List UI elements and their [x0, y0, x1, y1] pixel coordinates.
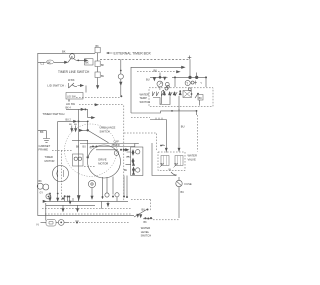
svg-text:BK: BK	[125, 150, 129, 152]
label: BK oval tag	[46, 60, 53, 64]
svg-text:MOTOR: MOTOR	[98, 162, 108, 166]
wire: drop arrow left	[62, 205, 64, 211]
connector circles pair bottom left	[37, 180, 49, 195]
svg-text:LID SWITCH :: LID SWITCH :	[47, 84, 66, 88]
svg-text:W-BK: W-BK	[68, 79, 75, 82]
node: dashed link to valve area	[124, 133, 157, 152]
wire: arrow at bus start	[43, 200, 46, 202]
label: TIMER LINE SWITCH	[58, 70, 90, 74]
wire: drop arrow center	[107, 201, 109, 206]
water temp switch contacts	[153, 90, 178, 105]
wire: vertical from boundary corner to junction row	[189, 59, 191, 77]
wire: valve feed right vertical	[178, 109, 180, 152]
svg-text:SWITCH: SWITCH	[141, 234, 152, 238]
label: N neutral	[37, 222, 39, 226]
wire: riser through border to plug	[45, 203, 47, 221]
node: dashed link upper	[76, 97, 120, 99]
label: BU tag water level	[142, 207, 146, 211]
wire: bottom bus line 1	[45, 200, 128, 202]
svg-text:BU: BU	[101, 76, 105, 78]
unbalance switch	[79, 129, 108, 143]
relay box in dashed region	[183, 91, 192, 98]
wire: stub row left	[72, 140, 88, 142]
node: inner dashed line upper	[137, 71, 176, 73]
wire: cabinet border bottom	[38, 215, 134, 217]
wire: arrow on dashed link	[95, 104, 98, 106]
svg-text:N: N	[37, 222, 39, 226]
svg-text:BU 2: BU 2	[66, 119, 72, 122]
connector plug label box	[85, 59, 94, 65]
wire: start riser with bead	[87, 140, 89, 156]
label: BU tag left of contacts	[146, 77, 150, 81]
svg-text:WATER: WATER	[141, 226, 150, 230]
wire: motor leads to bus	[103, 177, 114, 200]
svg-text:BK: BK	[76, 146, 80, 149]
svg-text:DRIVE: DRIVE	[98, 158, 106, 162]
svg-text:BU: BU	[142, 207, 146, 211]
connector block low	[95, 72, 105, 78]
wire: stubs left of protector	[124, 150, 131, 172]
label: W tag below valve	[169, 168, 172, 172]
label: BK tag below	[144, 221, 148, 224]
wire: connector column links with end arrow	[96, 53, 98, 89]
svg-text:BU: BU	[83, 146, 87, 149]
wire: cap lead with beads	[80, 144, 139, 151]
svg-text:BU: BU	[181, 125, 185, 129]
wire: cabinet border left and top	[38, 53, 95, 215]
capacitor concentric symbol	[88, 180, 95, 199]
label: UNBALANCE SWITCH	[100, 126, 116, 134]
label: BK tag above dashed	[154, 68, 158, 72]
wire: L1 feed	[38, 61, 68, 63]
node: dashed parallel below frame step	[131, 117, 150, 119]
connector block mid	[95, 61, 105, 67]
svg-text:BU: BU	[181, 191, 185, 194]
node: long dashed rail center	[123, 106, 125, 201]
label: WATER LEVEL SWITCH	[141, 226, 152, 238]
label: CAP tag	[112, 140, 120, 148]
node: external timer box dashed top boundary	[100, 58, 190, 60]
wire: valve common to fuse	[152, 143, 177, 176]
wire: drop arrow below bus	[76, 205, 78, 211]
label: TIMER MOTOR	[45, 155, 55, 163]
wire: timer inner frame top and left	[131, 67, 184, 113]
svg-text:TIMER LINE SWITCH: TIMER LINE SWITCH	[58, 70, 90, 74]
motor protector block	[131, 147, 143, 176]
ground: cabinet earth	[38, 131, 50, 143]
node: inner dashed cabinet line bottom	[45, 213, 131, 215]
junction: wire row above motor	[90, 146, 135, 148]
wire: unbalance riser	[87, 121, 89, 130]
junction: tick markers above lever	[69, 124, 77, 132]
svg-text:LID SW: LID SW	[66, 102, 75, 106]
connector block top	[95, 45, 100, 53]
wire: arrowhead at frame top right	[182, 66, 185, 68]
svg-text:SWITCH: SWITCH	[140, 100, 151, 104]
solenoid hot	[160, 156, 170, 168]
svg-text:WATER: WATER	[140, 92, 149, 96]
lid switch	[69, 83, 87, 93]
junction: tag arrow mid right	[161, 144, 165, 147]
junction: top right wire beads	[172, 73, 207, 88]
node: dashed link row	[79, 104, 124, 106]
water level switch	[131, 200, 153, 220]
svg-text:GY: GY	[40, 192, 44, 195]
svg-text:BU: BU	[74, 124, 77, 126]
timer main contacts cluster	[150, 73, 169, 91]
label: EXTERNAL TIMER BOX	[114, 51, 152, 55]
wire: riser to bottom bus	[77, 109, 79, 201]
svg-text:BK: BK	[85, 61, 89, 65]
label: LID SW row	[66, 102, 75, 106]
fuse F1	[176, 177, 182, 218]
svg-text:L1: L1	[41, 61, 45, 65]
svg-text:FRAME: FRAME	[39, 148, 49, 152]
svg-text:EXTERNAL TIMER BOX: EXTERNAL TIMER BOX	[114, 51, 152, 55]
svg-text:BK: BK	[101, 65, 105, 67]
wire: bus link corner	[101, 201, 103, 208]
label: BU tag on feed	[181, 125, 185, 129]
label: BK tag left border	[40, 130, 44, 134]
node: wide dashed box water temp switch and aux	[149, 88, 213, 107]
svg-text:BK: BK	[62, 50, 66, 54]
svg-text:MOTOR: MOTOR	[45, 159, 55, 163]
timer line switch	[68, 54, 88, 63]
aux contact arrows in dashed box	[163, 85, 181, 94]
svg-text:BK: BK	[154, 68, 158, 72]
label: CABINET FRAME	[39, 144, 51, 152]
timer switch row 2	[58, 119, 89, 194]
svg-text:BU: BU	[146, 77, 150, 81]
label: BK above border	[62, 50, 66, 54]
wire: bottom bus line 2	[46, 204, 95, 206]
wire: valve feed left with ticks	[150, 118, 166, 153]
label: BU tag below fuse	[181, 191, 185, 194]
svg-text:WATER: WATER	[188, 154, 197, 158]
svg-text:BK: BK	[199, 97, 203, 100]
svg-text:SWITCH: SWITCH	[100, 129, 110, 133]
svg-text:LEVEL: LEVEL	[141, 230, 150, 234]
label: WATER TEMP SWITCH	[140, 92, 151, 104]
label: WATER VALVE	[188, 154, 197, 162]
junction: bus beads and stubs	[49, 193, 80, 204]
thermostat circle pair	[185, 80, 197, 90]
svg-text:W: W	[169, 168, 172, 172]
timer motor M2	[52, 151, 72, 202]
svg-text:Y: Y	[200, 81, 202, 85]
svg-text:BK: BK	[47, 60, 51, 64]
solenoid cold	[174, 156, 184, 168]
node: boundary corner mark	[188, 56, 192, 60]
svg-text:CAP: CAP	[114, 140, 120, 144]
svg-text:BK: BK	[96, 45, 100, 48]
drive motor housing outline	[65, 124, 117, 176]
wire: drop from dashed boundary with connector bead	[118, 59, 123, 97]
label: Y tag	[200, 81, 202, 85]
junction: lead terminals	[102, 176, 129, 202]
svg-text:TEMP: TEMP	[140, 96, 148, 100]
label: LID SWITCH	[47, 84, 66, 88]
svg-text:VALVE: VALVE	[188, 157, 196, 161]
label: L1	[41, 61, 45, 65]
label: W-BK tag	[68, 79, 75, 82]
svg-text:TIMER: TIMER	[45, 155, 53, 159]
label: DRIVE MOTOR	[98, 158, 108, 166]
svg-text:BK 4: BK 4	[66, 107, 72, 110]
svg-text:CABINET: CABINET	[39, 144, 51, 148]
power cord plug	[41, 220, 70, 227]
svg-text:W: W	[90, 147, 93, 150]
label: FUSE	[185, 182, 192, 186]
timer switch row 1	[42, 107, 94, 119]
svg-text:T: T	[186, 82, 188, 86]
svg-text:LID SW: LID SW	[67, 95, 76, 98]
node: dashed run to fuse corner	[153, 219, 179, 221]
junction: bead on neutral	[76, 222, 78, 224]
water valve dashed box	[158, 152, 185, 171]
svg-text:UNBALANCE: UNBALANCE	[100, 126, 116, 130]
node: dashed bus line 3	[42, 208, 131, 210]
drive motor M1	[88, 145, 121, 178]
svg-text:BU: BU	[124, 170, 128, 172]
wire: arrowhead into valve left	[165, 148, 167, 151]
connector circle at bus start	[46, 194, 51, 199]
contact lever pair right	[191, 93, 203, 106]
start switch box	[73, 154, 84, 166]
wire: frame step to valve feed	[131, 111, 161, 113]
node: dashed drop to valve right	[197, 115, 199, 152]
wire: bus below dashed box	[161, 94, 198, 115]
terminal circle on motor	[114, 151, 119, 156]
svg-text:TIMER SWITCH: TIMER SWITCH	[42, 112, 64, 116]
wire: dashed neutral run	[70, 222, 130, 224]
lid switch block	[66, 93, 83, 102]
wire: arrowhead on dashed upper	[177, 71, 180, 73]
label: BK tags above start box	[76, 146, 93, 150]
wire: callout leader arrow	[107, 52, 113, 54]
svg-text:BK: BK	[144, 221, 148, 224]
svg-text:FUSE: FUSE	[185, 182, 192, 186]
svg-text:BK: BK	[39, 180, 43, 183]
